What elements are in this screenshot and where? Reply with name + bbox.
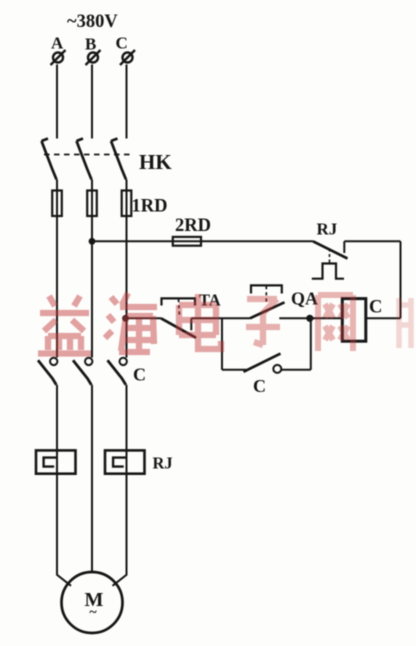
contact C main pole C circle (120, 358, 127, 365)
watermark char 5 (318, 295, 353, 351)
wire phase B lower (91, 385, 93, 573)
watermark char 4 (246, 299, 280, 345)
svg-text:C: C (133, 365, 146, 385)
wire phase A middle (56, 180, 58, 358)
fuse 1RD pole A (52, 191, 62, 217)
svg-text:A: A (51, 34, 64, 53)
fuse 2RD (173, 237, 201, 246)
contact C main pole B circle (85, 358, 92, 365)
contact C main pole A blade (38, 360, 56, 385)
fuse 1RD pole C (122, 191, 132, 217)
contact C main pole A circle (50, 358, 57, 365)
button QA actuator bracket (251, 285, 282, 293)
switch HK pole B blade (77, 139, 92, 180)
button TA blade (161, 318, 196, 338)
relay RJ heater pole A inner (44, 458, 57, 467)
contact C auxiliary fixed circle (273, 365, 281, 373)
relay RJ thermal element symbol (312, 264, 344, 279)
svg-text:B: B (85, 35, 96, 54)
relay RJ heater pole A (36, 450, 76, 473)
contact C auxiliary blade (244, 354, 281, 372)
button TA fixed tick (190, 318, 192, 330)
svg-text:C: C (369, 298, 382, 318)
switch HK linkage dashed (44, 154, 133, 156)
svg-text:2RD: 2RD (175, 216, 211, 236)
wire phase A top (56, 65, 58, 139)
wire coil to right rail (366, 317, 401, 319)
wire phase A lower (56, 385, 58, 474)
button QA dashed stem (265, 286, 267, 304)
wire phase B middle (91, 180, 93, 358)
svg-text:QA: QA (291, 289, 318, 309)
wire control lower horizontal segment 3 (279, 317, 342, 319)
fuse 1RD pole B (87, 191, 97, 217)
wire latch branch bottom left (222, 369, 247, 371)
contact C main pole C blade (108, 360, 126, 385)
watermark partial char right edge (399, 298, 411, 348)
svg-text:C: C (253, 376, 266, 396)
motor M circle (62, 572, 123, 633)
watermark char 3 (179, 294, 221, 349)
relay contact RJ fixed tick (343, 241, 345, 253)
wire phase C top (126, 65, 128, 139)
wire control lower horizontal segment 1 (126, 317, 162, 319)
wire control lower horizontal segment 2 (191, 317, 250, 319)
switch HK pole A blade (42, 139, 57, 180)
svg-text:HK: HK (139, 150, 172, 174)
relay RJ heater pole C inner (113, 458, 126, 467)
svg-text:C: C (116, 34, 128, 53)
switch HK pole C blade (111, 139, 126, 180)
contact C main pole B blade (73, 360, 91, 385)
watermark char 2 (105, 293, 157, 355)
coil C contactor (342, 299, 366, 342)
button QA blade (250, 302, 285, 318)
wire RJ to right rail (344, 240, 400, 242)
wire right rail vertical (400, 241, 402, 318)
svg-text:~: ~ (89, 605, 97, 620)
wire phase C to motor (113, 474, 127, 586)
svg-text:RJ: RJ (317, 220, 338, 239)
button TA dashed stem (179, 299, 180, 317)
watermark char 1 (38, 296, 91, 354)
relay RJ actuator dashed link (329, 251, 331, 263)
svg-text:~380V: ~380V (67, 12, 118, 32)
terminal A (51, 50, 66, 65)
terminal C (120, 50, 135, 65)
wire phase C lower (126, 385, 128, 474)
terminal B (86, 50, 101, 65)
svg-text:1RD: 1RD (132, 197, 168, 217)
relay RJ heater pole C (105, 450, 145, 473)
wire phase A to motor (57, 474, 71, 586)
wire phase C middle (126, 180, 128, 358)
wire latch branch bottom right (282, 369, 311, 371)
wire control upper horizontal (92, 240, 313, 242)
wire latch branch left vertical (221, 318, 223, 370)
wire phase B top (91, 65, 93, 139)
junction dot QA output (306, 315, 313, 322)
relay contact RJ blade (313, 241, 348, 258)
button TA actuator bracket (162, 298, 196, 305)
junction dot on phase C control tap (122, 315, 129, 322)
svg-text:RJ: RJ (153, 454, 173, 473)
junction dot on phase B control tap (89, 238, 96, 245)
wire latch branch right vertical (310, 318, 312, 370)
